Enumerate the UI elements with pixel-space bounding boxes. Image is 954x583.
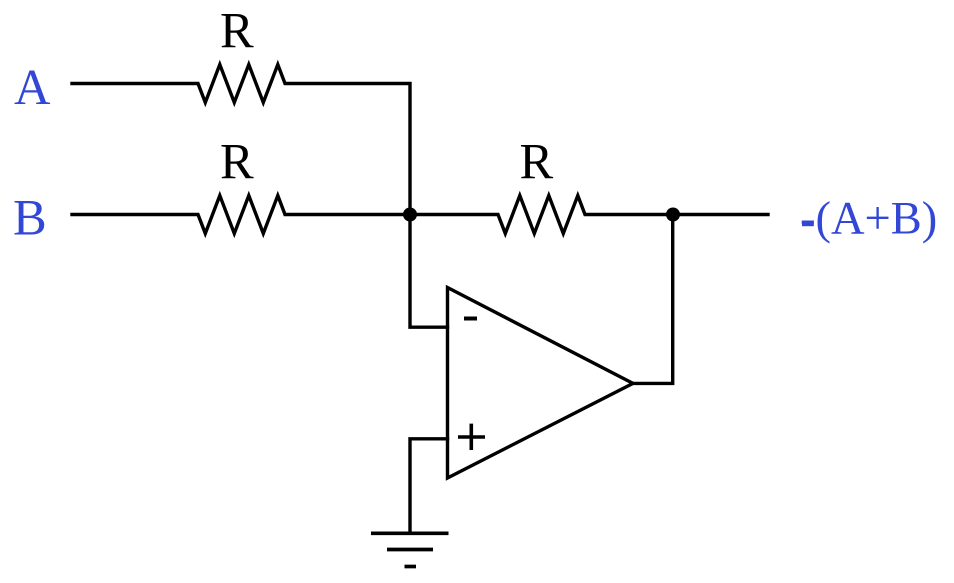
svg-text:R: R <box>220 134 254 190</box>
svg-text:-(A+B): -(A+B) <box>800 194 937 245</box>
svg-text:R: R <box>220 3 254 59</box>
svg-text:R: R <box>520 134 554 190</box>
svg-text:B: B <box>13 190 47 246</box>
svg-text:A: A <box>14 59 51 115</box>
